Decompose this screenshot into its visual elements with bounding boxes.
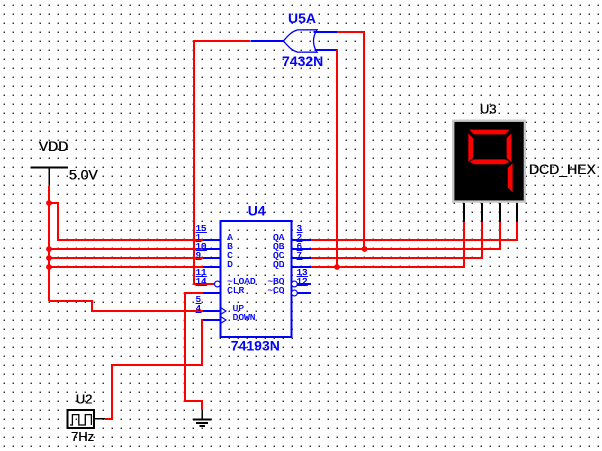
svg-text:74193N: 74193N [231,338,280,354]
wire: OR top input to QB net [337,32,364,249]
svg-text:14: 14 [196,277,207,287]
or-gate U5A bottom input pin stub [315,49,338,51]
svg-text:CLR: CLR [227,285,244,296]
pin ~LOAD bubble [215,281,221,287]
IC U4 74193N body [221,221,292,337]
wire: VDD rail vertical [48,186,50,301]
pin DOWN stub [203,319,221,321]
wire: QD to display pin 1 [310,222,464,267]
pin ~CO bubble [292,290,298,296]
svg-text:7432N: 7432N [282,53,323,69]
pin QD stub [291,266,311,268]
pin ~BO stub [297,283,311,285]
svg-text:5.0V: 5.0V [69,167,98,183]
or-gate U5A top input pin stub [314,31,338,33]
pin QA stub [291,239,311,241]
wire: VDD to pin D [49,266,203,268]
wire: U2 clock to DOWN pin [105,320,203,419]
svg-text:U5A: U5A [288,10,316,26]
wire: VDD rail to UP pin [49,301,203,311]
or-gate U5A body [283,30,317,52]
svg-text:QD: QD [273,259,285,270]
svg-text:U4: U4 [248,202,266,218]
wire: QA to display pin 4 [310,222,517,240]
pin ~CO stub [297,292,311,294]
display pin 4 stub [516,203,518,222]
svg-text:12: 12 [297,277,308,287]
svg-text:U3: U3 [480,101,497,116]
svg-text:DOWN: DOWN [233,312,256,323]
display U3 DCD_HEX body [452,120,526,203]
svg-text:DCD_HEX: DCD_HEX [529,161,597,177]
junction on VDD rail at pin B [46,246,52,252]
display pin 2 stub [481,203,483,222]
svg-text:7Hz: 7Hz [71,429,94,444]
wire: VDD to pin B [49,248,203,250]
svg-text:9: 9 [196,251,201,261]
pin QB stub [291,248,311,250]
junction QB net and OR input [362,246,368,252]
wire: QB to display pin 3 [310,222,500,249]
svg-text:~CO: ~CO [267,285,284,296]
svg-text:VDD: VDD [39,138,69,154]
svg-text:4: 4 [196,304,201,314]
power VDD symbol [31,167,69,185]
pin A stub [203,239,221,241]
wire: OR bottom input to QD net [336,50,338,267]
wire: QC to display pin 2 [310,222,482,258]
svg-text:U2: U2 [76,392,93,407]
display segment g (middle) [470,159,510,164]
pin CLR stub [203,292,221,294]
junction QD net and OR input [334,264,340,270]
display pin 3 stub [499,203,501,222]
pin UP stub [203,310,221,312]
pin B stub [203,248,221,250]
display segment b (top-right) [507,133,512,162]
pin D stub [203,266,221,268]
wire: VDD to pin A (jog) [49,203,203,240]
display segment a (top) [469,130,509,135]
clock source U2 body [68,410,95,428]
pin DOWN clock chevron [221,317,227,324]
junction on VDD rail at pin C [46,255,52,261]
pin C stub [203,257,221,259]
pin UP clock chevron [221,308,227,315]
pin QC stub [291,257,311,259]
junction on VDD rail at jog to A [46,200,52,206]
junction on VDD rail at pin D [46,264,52,270]
wire: CLR to ground [185,293,203,410]
display segment f (top-left) [468,133,473,162]
svg-text:D: D [227,259,233,270]
ground symbol [193,410,212,426]
svg-text:7: 7 [297,251,302,261]
wire: VDD to pin C [49,257,203,259]
or-gate U5A output pin stub [250,40,284,42]
wire: OR output to ~LOAD pin [194,41,250,284]
clock U2 output stub [94,418,105,420]
display segment c (bottom-right) [508,163,513,192]
pin ~BO bubble [292,281,298,287]
display pin 1 stub [463,203,465,222]
